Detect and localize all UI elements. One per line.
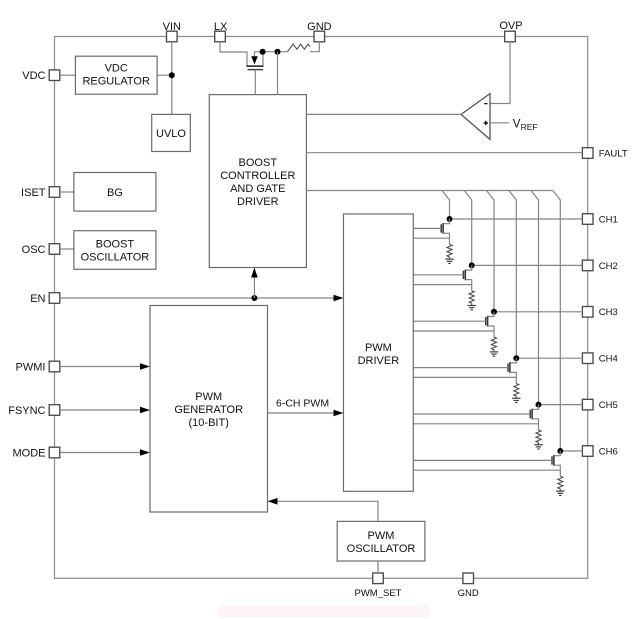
wire CH2 node to pin bbox=[472, 264, 583, 266]
wire Q3 source sense from PWM driver bbox=[413, 330, 494, 332]
comparator U1 bbox=[461, 94, 490, 140]
wire OVP to comparator bbox=[490, 42, 510, 104]
transistor Q5 source lead bbox=[532, 419, 538, 430]
resistor R1 bbox=[447, 244, 452, 257]
resistor R5 bbox=[536, 430, 541, 443]
pin CH3 bbox=[582, 307, 593, 318]
wire FAULT bbox=[306, 152, 582, 154]
wire switch node bbox=[255, 51, 288, 53]
wire ISET to BG bbox=[60, 191, 74, 193]
svg-text:LX: LX bbox=[214, 21, 228, 33]
wire FSYNC input bbox=[60, 407, 150, 414]
wire Q6 source sense from PWM driver bbox=[413, 469, 560, 471]
junction CH6 node bbox=[557, 448, 563, 454]
transistor Q6 gate bar bbox=[551, 456, 553, 464]
wire Q3 gate from PWM driver bbox=[413, 320, 485, 322]
transistor Q1 drain lead bbox=[443, 219, 449, 224]
wire Q2 gate from PWM driver bbox=[413, 274, 463, 276]
wire CH1 bus bevel bbox=[442, 191, 450, 220]
ground CH2 bbox=[468, 303, 476, 310]
transistor Q3 channel bar bbox=[487, 316, 489, 327]
pin CH6 bbox=[582, 446, 593, 457]
pin CH2 bbox=[582, 260, 593, 271]
ground CH1 bbox=[445, 257, 453, 264]
svg-text:BOOST: BOOST bbox=[239, 157, 278, 169]
wire Q4 gate from PWM driver bbox=[413, 367, 508, 369]
label CH6 bbox=[599, 446, 618, 457]
transistor Q7 gate bar bbox=[248, 69, 264, 71]
pin VIN bbox=[167, 31, 178, 42]
svg-text:GENERATOR: GENERATOR bbox=[174, 404, 243, 416]
label LX bbox=[214, 21, 228, 33]
block VDC REGULATOR bbox=[75, 56, 157, 94]
block BOOST OSCILLATOR bbox=[74, 231, 156, 270]
pin CH1 bbox=[582, 214, 593, 225]
wire LX to switch drain bbox=[220, 42, 247, 66]
svg-text:CH4: CH4 bbox=[599, 354, 618, 365]
transistor Q2 source lead bbox=[465, 280, 471, 291]
svg-text:PWM: PWM bbox=[368, 530, 395, 542]
pin GND top bbox=[314, 31, 325, 42]
transistor Q7 channel bar bbox=[246, 65, 263, 67]
highlight band bbox=[218, 605, 429, 617]
wire PWM oscillator to generator bbox=[268, 498, 379, 521]
svg-text:FSYNC: FSYNC bbox=[8, 405, 45, 417]
transistor Q1 source lead bbox=[443, 233, 449, 244]
transistor Q4 gate bar bbox=[507, 364, 509, 372]
label CH1 bbox=[599, 214, 618, 225]
pin OVP bbox=[505, 31, 516, 42]
svg-text:BOOST: BOOST bbox=[96, 239, 135, 251]
svg-text:OSCILLATOR: OSCILLATOR bbox=[347, 543, 416, 555]
svg-text:EN: EN bbox=[30, 293, 45, 305]
pin LX bbox=[215, 31, 226, 42]
transistor Q1 channel bar bbox=[442, 223, 444, 234]
transistor Q5 channel bar bbox=[531, 409, 533, 420]
label GND top bbox=[307, 21, 332, 33]
svg-text:GND: GND bbox=[307, 21, 332, 33]
svg-text:V: V bbox=[513, 118, 521, 130]
resistor R6 bbox=[558, 476, 563, 489]
label MODE bbox=[13, 447, 46, 459]
transistor Q1 gate bar bbox=[440, 224, 442, 232]
svg-text:GND: GND bbox=[458, 588, 479, 599]
block BG bbox=[74, 173, 156, 212]
junction EN branch bbox=[251, 295, 257, 301]
transistor Q5 gate bar bbox=[529, 410, 531, 418]
transistor Q3 drain lead bbox=[488, 312, 494, 317]
wire Rsense to GND pin bbox=[310, 42, 319, 52]
pin PWM_SET bbox=[373, 573, 384, 584]
label 6-CH PWM bbox=[276, 397, 329, 409]
pin PWMI bbox=[49, 361, 60, 372]
svg-text:(10-BIT): (10-BIT) bbox=[189, 417, 229, 429]
wire CH2 bus bevel bbox=[464, 191, 472, 266]
block PWM DRIVER bbox=[344, 214, 414, 491]
label GND bottom bbox=[458, 588, 479, 599]
wire Q2 source sense from PWM driver bbox=[413, 284, 471, 286]
wire CH4 bus bevel bbox=[509, 191, 517, 359]
block BOOST CONTROLLER AND GATE DRIVER bbox=[209, 95, 306, 268]
junction CH4 node bbox=[513, 355, 519, 361]
transistor Q2 drain lead bbox=[465, 265, 471, 270]
transistor Q6 drain lead bbox=[554, 451, 560, 456]
wire MODE input bbox=[60, 449, 150, 456]
transistor Q3 source lead bbox=[488, 326, 494, 337]
svg-text:OVP: OVP bbox=[499, 20, 522, 32]
svg-text:PWM_SET: PWM_SET bbox=[355, 588, 402, 599]
svg-text:CH6: CH6 bbox=[599, 446, 618, 457]
pin EN bbox=[49, 293, 60, 304]
block PWM OSCILLATOR bbox=[337, 521, 425, 561]
svg-text:AND GATE: AND GATE bbox=[230, 183, 285, 195]
label OVP bbox=[499, 20, 522, 32]
wire Q1 source sense from PWM driver bbox=[413, 237, 449, 239]
transistor Q7 source lead bbox=[262, 52, 264, 66]
wire channel sense bus bbox=[306, 190, 552, 192]
wire CH6 node to pin bbox=[560, 450, 582, 452]
ground CH4 bbox=[512, 396, 520, 403]
pin OSC bbox=[49, 244, 60, 255]
transistor Q5 drain lead bbox=[532, 405, 538, 410]
transistor Q4 drain lead bbox=[510, 358, 516, 363]
chip outer boundary bbox=[55, 37, 588, 579]
wire 6-CH PWM bbox=[268, 410, 344, 417]
junction switch-source bbox=[260, 49, 266, 55]
transistor Q2 channel bar bbox=[464, 270, 466, 281]
resistor R3 bbox=[492, 337, 497, 350]
arrow Q7 body bbox=[251, 52, 258, 64]
wire VDC to regulator bbox=[60, 74, 76, 76]
svg-text:UVLO: UVLO bbox=[156, 128, 186, 140]
transistor Q6 channel bar bbox=[553, 455, 555, 466]
wire Q5 gate from PWM driver bbox=[413, 413, 530, 415]
svg-text:DRIVER: DRIVER bbox=[237, 196, 279, 208]
wire comparator output to controller bbox=[306, 113, 461, 115]
svg-text:ISET: ISET bbox=[21, 187, 46, 199]
junction sense bbox=[275, 49, 281, 55]
wire sense to controller bbox=[277, 52, 279, 95]
wire Q1 gate from PWM driver bbox=[413, 227, 441, 229]
resistor Rsense bbox=[288, 44, 311, 52]
transistor Q3 gate bar bbox=[485, 317, 487, 325]
svg-text:PWM: PWM bbox=[195, 391, 222, 403]
wire CH5 bus bevel bbox=[531, 191, 539, 405]
wire VIN down to UVLO bbox=[171, 42, 173, 115]
wire CH3 bus bevel bbox=[487, 191, 495, 312]
svg-text:PWMI: PWMI bbox=[16, 361, 46, 373]
svg-text:REGULATOR: REGULATOR bbox=[82, 76, 149, 88]
wire CH4 node to pin bbox=[516, 357, 582, 359]
block UVLO bbox=[152, 114, 191, 151]
label VDC bbox=[22, 70, 45, 82]
ground CH5 bbox=[534, 443, 542, 450]
transistor Q2 gate bar bbox=[462, 271, 464, 279]
svg-text:CH5: CH5 bbox=[599, 400, 618, 411]
junction CH5 node bbox=[536, 402, 542, 408]
ground CH6 bbox=[556, 489, 564, 496]
wire Q7 gate to controller bbox=[254, 70, 256, 95]
pin MODE bbox=[49, 447, 60, 458]
svg-text:FAULT: FAULT bbox=[599, 148, 628, 159]
wire PWMI input bbox=[60, 363, 150, 370]
junction CH1 node bbox=[447, 216, 453, 222]
resistor R4 bbox=[514, 384, 519, 397]
label PWM_SET bbox=[355, 588, 402, 599]
svg-text:OSCILLATOR: OSCILLATOR bbox=[81, 252, 150, 264]
svg-text:CH1: CH1 bbox=[599, 214, 618, 225]
wire CH1 node to pin bbox=[450, 218, 583, 220]
label EN bbox=[30, 293, 45, 305]
wire VDC regulator to VIN line bbox=[157, 74, 172, 76]
label CH5 bbox=[599, 400, 618, 411]
pin VDC bbox=[49, 70, 60, 81]
svg-text:VDC: VDC bbox=[105, 63, 128, 75]
junction VIN-VDCreg bbox=[169, 72, 175, 78]
svg-text:MODE: MODE bbox=[13, 447, 46, 459]
label PWMI bbox=[16, 361, 46, 373]
pin CH5 bbox=[582, 399, 593, 410]
svg-text:CH2: CH2 bbox=[599, 261, 618, 272]
label VIN bbox=[163, 21, 181, 33]
pin ISET bbox=[49, 187, 60, 198]
pin FSYNC bbox=[49, 405, 60, 416]
wire CH6 bus bevel bbox=[553, 191, 561, 452]
resistor R2 bbox=[469, 291, 474, 304]
wire Q6 gate from PWM driver bbox=[413, 459, 552, 461]
transistor Q4 source lead bbox=[510, 372, 516, 383]
svg-text:BG: BG bbox=[107, 187, 123, 199]
pin FAULT bbox=[582, 148, 593, 159]
label CH3 bbox=[599, 307, 618, 318]
wire PWM_SET to oscillator bbox=[377, 561, 379, 573]
wire OSC to boost oscillator bbox=[60, 248, 74, 250]
ground CH3 bbox=[490, 350, 498, 357]
svg-text:PWM: PWM bbox=[365, 342, 392, 354]
svg-text:CH3: CH3 bbox=[599, 307, 618, 318]
transistor Q4 channel bar bbox=[509, 362, 511, 373]
block PWM GENERATOR bbox=[150, 306, 268, 513]
svg-text:CONTROLLER: CONTROLLER bbox=[220, 170, 295, 182]
pin CH4 bbox=[582, 353, 593, 364]
svg-text:VIN: VIN bbox=[163, 21, 181, 33]
label FAULT bbox=[599, 148, 628, 159]
svg-text:REF: REF bbox=[521, 122, 538, 132]
svg-text:VDC: VDC bbox=[22, 70, 45, 82]
label OSC bbox=[22, 244, 46, 256]
label CH4 bbox=[599, 354, 618, 365]
label CH2 bbox=[599, 261, 618, 272]
wire CH5 node to pin bbox=[539, 404, 583, 406]
svg-text:OSC: OSC bbox=[22, 244, 46, 256]
wire Q5 source sense from PWM driver bbox=[413, 423, 538, 425]
label VREF bbox=[513, 118, 538, 132]
wire VREF input bbox=[490, 122, 509, 124]
label FSYNC bbox=[8, 405, 45, 417]
junction CH3 node bbox=[491, 309, 497, 315]
wire EN to PWM driver bbox=[60, 295, 344, 302]
wire EN to boost controller bbox=[251, 268, 258, 299]
wire CH3 node to pin bbox=[494, 311, 582, 313]
pin GND bottom bbox=[463, 573, 474, 584]
svg-text:6-CH PWM: 6-CH PWM bbox=[276, 397, 329, 409]
svg-text:DRIVER: DRIVER bbox=[358, 355, 400, 367]
wire Q4 source sense from PWM driver bbox=[413, 376, 516, 378]
transistor Q6 source lead bbox=[554, 465, 560, 476]
label ISET bbox=[21, 187, 46, 199]
junction CH2 node bbox=[469, 262, 475, 268]
